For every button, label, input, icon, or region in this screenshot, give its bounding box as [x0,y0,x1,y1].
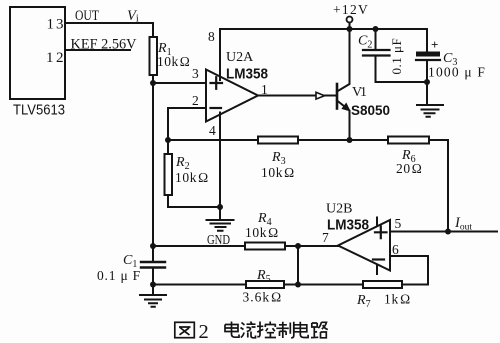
svg-text:S8050: S8050 [351,102,390,118]
caption char kong (control) [257,322,276,338]
svg-text:10kΩ: 10kΩ [261,165,295,180]
resistor R2 body [165,154,173,195]
wire mid rail through R3 R6 [168,140,448,232]
op-amp U2A plus sign [211,77,223,89]
svg-text:LM358: LM358 [226,67,268,83]
caption char dian (electric) 2 [294,322,308,338]
svg-text:U2B: U2B [326,202,352,217]
capacitor C3 branch wire [426,29,428,105]
junction node C1 bottom [150,282,156,288]
svg-text:5: 5 [395,216,402,231]
svg-text:1000 μ F: 1000 μ F [428,65,486,80]
junction node C2 tap [373,26,379,32]
svg-text:10kΩ: 10kΩ [157,54,190,69]
resistor R6 body [388,137,429,144]
op-amp U2B minus sign [373,258,384,260]
resistor R2 chain [168,140,220,207]
capacitor C2 branch wires [376,29,428,82]
caption char tu (figure) [175,322,195,337]
transistor V1 emitter [337,101,350,141]
svg-text:8: 8 [208,29,215,44]
wire rail to R4 and U2B output [153,245,338,247]
ground below C3 [417,105,443,117]
junction node R5 R7 [295,282,301,288]
svg-text:V1: V1 [352,85,367,100]
transistor V1 base bar [336,84,339,109]
op-amp U2B power pin ticks [376,218,378,275]
svg-text:1kΩ: 1kΩ [384,292,411,307]
svg-text:0.1 μF: 0.1 μF [389,38,404,75]
junction node pin2 R2 [165,137,171,143]
wire pin1 output to V1 base [258,95,336,97]
caption figure 2 chinese text drawn as strokes [175,321,328,343]
junction node C2 C3 bottom [424,79,430,85]
svg-text:20Ω: 20Ω [396,161,422,176]
resistor R5 body [246,281,284,288]
resistor R4 body [245,243,285,250]
transistor V1 emitter arrow [342,103,350,110]
svg-text:2: 2 [192,93,199,108]
junction node R2 gnd [217,204,223,210]
svg-text:0.1 μ F: 0.1 μ F [97,268,141,283]
resistor R7 body [363,281,402,288]
wire pin 5 to Iout [390,231,497,233]
wire left rail vertical [152,23,154,285]
capacitor C1 plates [141,262,165,268]
svg-text:3: 3 [192,66,199,81]
junction node R4 out [295,243,301,249]
svg-text:U2A: U2A [226,50,254,65]
junction node R1 pin3 [150,80,156,86]
caption char zhi (system) [276,322,294,338]
resistor R1 body [150,37,158,75]
ground below C1 [152,285,154,295]
wire pin 8 to +12V rail [219,29,221,80]
wire bottom rail through R5 R7 [153,284,428,286]
wire pin 4 down [219,113,221,208]
svg-text:LM358: LM358 [327,218,369,234]
capacitor C3 top plate thick [416,52,440,57]
junction node rail C1 top [150,243,156,249]
svg-text:+12V: +12V [333,2,369,17]
wire node join R4 R5 [297,246,299,285]
wire pin 6 feedback [390,256,428,285]
wire pin13 OUT to R1 top [65,22,153,24]
junction node Iout [445,229,451,235]
svg-text:OUT: OUT [75,8,99,24]
svg-text:2: 2 [199,321,209,343]
svg-text:1: 1 [261,82,268,97]
caption char liu (flow) [241,322,256,338]
svg-text:+: + [431,37,438,52]
caption char lu (road) [311,322,328,338]
wire +12V top rail [220,28,427,30]
transistor V1 collector [337,29,350,92]
junction node +12V collector [347,26,353,32]
svg-text:10kΩ: 10kΩ [245,225,279,240]
wire pin12 KEF stub [65,49,130,51]
svg-text:4: 4 [209,123,216,138]
op-amp U2A minus sign [211,107,222,109]
wire terminal stub [349,23,351,29]
svg-text:6: 6 [392,242,399,257]
buffer arrow on base wire [316,92,325,99]
svg-text:10kΩ: 10kΩ [175,170,209,185]
caption char dian (electric) 1 [225,322,239,338]
resistor R3 body [258,137,298,144]
junction node emitter rail [347,137,353,143]
capacitor C2 plates [363,50,390,56]
wire pin 2 input [168,108,206,140]
svg-text:TLV5613: TLV5613 [13,103,65,119]
svg-text:7: 7 [322,230,329,245]
capacitor C3 bottom plate [416,59,440,61]
svg-text:GND: GND [207,233,230,248]
ground below pin4 [219,207,221,219]
op-amp U2A triangle [206,70,258,122]
wire pin 3 input [153,82,206,84]
op-amp U2B plus sign [375,227,387,239]
svg-text:KEF 2.56V: KEF 2.56V [71,37,138,53]
svg-text:3.6kΩ: 3.6kΩ [243,290,283,305]
terminal +12V circle [347,17,353,23]
op-amp U2B triangle [338,220,390,271]
IC U1 TLV5613 box [10,7,65,99]
